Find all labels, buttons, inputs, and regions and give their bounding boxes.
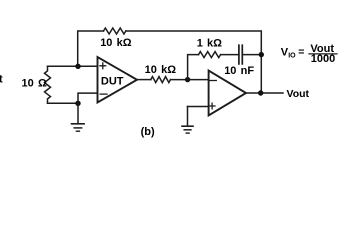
ground (below U2 + input) [182, 107, 193, 134]
capacitor C1 10 nF [224, 45, 254, 77]
label Vout [287, 88, 310, 100]
svg-text:10 nF: 10 nF [224, 65, 254, 77]
svg-text:10 Ω: 10 Ω [22, 78, 47, 90]
node at U2 inverting input [185, 77, 190, 82]
resistor R1 10 kOhm (top feedback) [100, 28, 132, 49]
wire output to Vout [246, 92, 283, 94]
wire U2 + input to ground [188, 106, 209, 108]
formula VIO = Vout/1000 [281, 43, 337, 65]
resistor R4 1 kOhm (integrator feedback) [197, 38, 222, 58]
label (b) [141, 126, 155, 138]
node at ground junction [75, 101, 80, 106]
wire jog to DUT - input [78, 93, 98, 103]
wire feedback-left vertical and top segment [78, 31, 104, 66]
wire attenuator bottom row [48, 102, 79, 104]
svg-text:1 kΩ: 1 kΩ [197, 38, 222, 50]
wire up to integrator feedback branch [188, 55, 199, 80]
resistor R2 10 Ohm (attenuator, vertical) [22, 66, 51, 103]
node at cap / right rail junction [259, 52, 264, 57]
label truncated t (left edge) [0, 74, 3, 86]
svg-text:(b): (b) [141, 126, 155, 138]
svg-text:IO: IO [288, 53, 296, 60]
resistor R3 10 kOhm (DUT output) [145, 64, 177, 83]
wire C1 to right rail [242, 54, 261, 56]
op-amp U1 DUT [98, 57, 138, 103]
wire DUT output [137, 79, 151, 81]
wire top feedback right segment to right rail [126, 31, 261, 55]
svg-text:DUT: DUT [101, 75, 124, 87]
op-amp U2 (auxiliary integrator) [209, 71, 246, 116]
node at output [258, 90, 263, 95]
wire R3 to U2 inverting input [171, 79, 209, 81]
svg-text:1000: 1000 [311, 53, 335, 65]
wire attenuator top row to DUT + input [48, 65, 98, 67]
wire right rail lower (cap node to output node) [260, 55, 262, 93]
node at DUT + input [75, 64, 80, 69]
svg-text:Vout: Vout [287, 88, 310, 100]
svg-text:10 kΩ: 10 kΩ [100, 37, 132, 49]
ground (left, below attenuator) [72, 103, 85, 131]
svg-text:t: t [0, 74, 3, 86]
wire R4 to C1 [221, 54, 239, 56]
svg-text:=: = [298, 46, 304, 58]
svg-text:10 kΩ: 10 kΩ [145, 64, 177, 76]
